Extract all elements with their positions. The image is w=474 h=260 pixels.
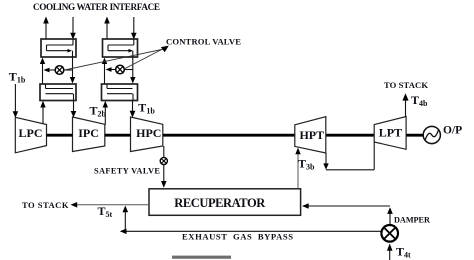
wire HPT to LPT crossover horizontal <box>326 169 374 171</box>
svg-text:LPT: LPT <box>379 126 402 140</box>
svg-text:EXHAUST GAS BYPASS: EXHAUST GAS BYPASS <box>182 232 293 242</box>
shaft HPT-LPT <box>326 134 374 137</box>
wire pointer to CV1 <box>65 49 165 70</box>
wire recuperator to stack (left) <box>77 204 149 206</box>
svg-text:TO STACK: TO STACK <box>22 200 69 210</box>
svg-text:SAFETY VALVE: SAFETY VALVE <box>94 167 160 176</box>
heat exchanger HX2 upper (intercooler 2 water side) <box>103 39 138 57</box>
turbine HPT <box>295 117 326 153</box>
wire bypass riser to stack line <box>124 212 126 231</box>
wire damper riser <box>389 214 391 225</box>
svg-text:COOLING WATER INTERFACE: COOLING WATER INTERFACE <box>33 2 160 12</box>
wire IPC outlet to HX2 <box>104 107 106 125</box>
wire LPC outlet to HX1 <box>42 107 44 124</box>
control valve CV2 <box>106 65 133 74</box>
generator G (output) <box>423 126 440 143</box>
wire cooling water return (column 1, up) <box>45 23 47 40</box>
damper valve <box>381 225 398 242</box>
turbine LPT <box>374 117 406 150</box>
heat exchanger HX1 upper (intercooler 1 water side) <box>41 39 76 57</box>
control valve CV1 <box>44 66 73 75</box>
svg-text:LPC: LPC <box>19 126 43 140</box>
safety valve SV <box>160 157 167 164</box>
svg-text:HPT: HPT <box>299 128 324 142</box>
svg-text:TO STACK: TO STACK <box>384 80 428 90</box>
wire riser left between HX2 boxes <box>104 63 106 84</box>
wire exhaust gas bypass <box>127 230 382 232</box>
heat exchanger HX2 lower (intercooler 2 air side) <box>102 84 138 101</box>
wire LPT to stack <box>405 100 407 117</box>
wire HPT exhaust down <box>325 153 327 164</box>
arrowhead at CONTROL VALVE label <box>161 46 169 53</box>
svg-text:HPC: HPC <box>136 126 161 140</box>
wire HX2 to HPC inlet <box>132 100 134 112</box>
shaft HPC-HPT <box>163 134 295 137</box>
recuperator <box>149 189 301 216</box>
svg-text:IPC: IPC <box>78 126 99 140</box>
wire turbine exhaust into damper (T4t) <box>389 251 391 260</box>
shaft LPC-IPC <box>47 134 73 137</box>
wire cooling water return (column 2, up) <box>106 23 108 40</box>
shaft IPC-HPC <box>105 134 131 137</box>
svg-text:CONTROL VALVE: CONTROL VALVE <box>166 37 241 47</box>
compressor HPC <box>131 117 163 152</box>
wire crossover riser to LPT <box>373 142 375 170</box>
svg-text:RECUPERATOR: RECUPERATOR <box>174 196 266 210</box>
legend box (cropped) <box>172 256 231 259</box>
wire riser left between HX1 boxes <box>42 63 44 84</box>
svg-text:O/P: O/P <box>443 125 462 137</box>
wire cooling water supply (column 1, down) <box>72 17 74 33</box>
wire HX1 to IPC inlet <box>73 100 75 112</box>
svg-text:DAMPER: DAMPER <box>394 216 430 225</box>
wire pointer to CV2 <box>125 48 165 69</box>
wire damper to recuperator <box>303 205 390 207</box>
wire cooling water supply (column 2, down) <box>133 17 135 33</box>
wire HPC outlet down <box>163 146 165 158</box>
heat exchanger HX1 lower (intercooler 1 air side) <box>40 84 76 101</box>
compressor IPC <box>73 117 105 152</box>
shaft LPT-generator <box>406 134 423 137</box>
wire recuperator to HPT (T3b) <box>297 154 299 189</box>
wire safety valve to recuperator <box>163 165 165 182</box>
wire downcomer right between HX2 boxes <box>132 57 134 78</box>
wire ambient air to LPC <box>14 84 16 112</box>
wire downcomer right between HX1 boxes <box>72 57 74 78</box>
compressor LPC <box>15 117 46 153</box>
